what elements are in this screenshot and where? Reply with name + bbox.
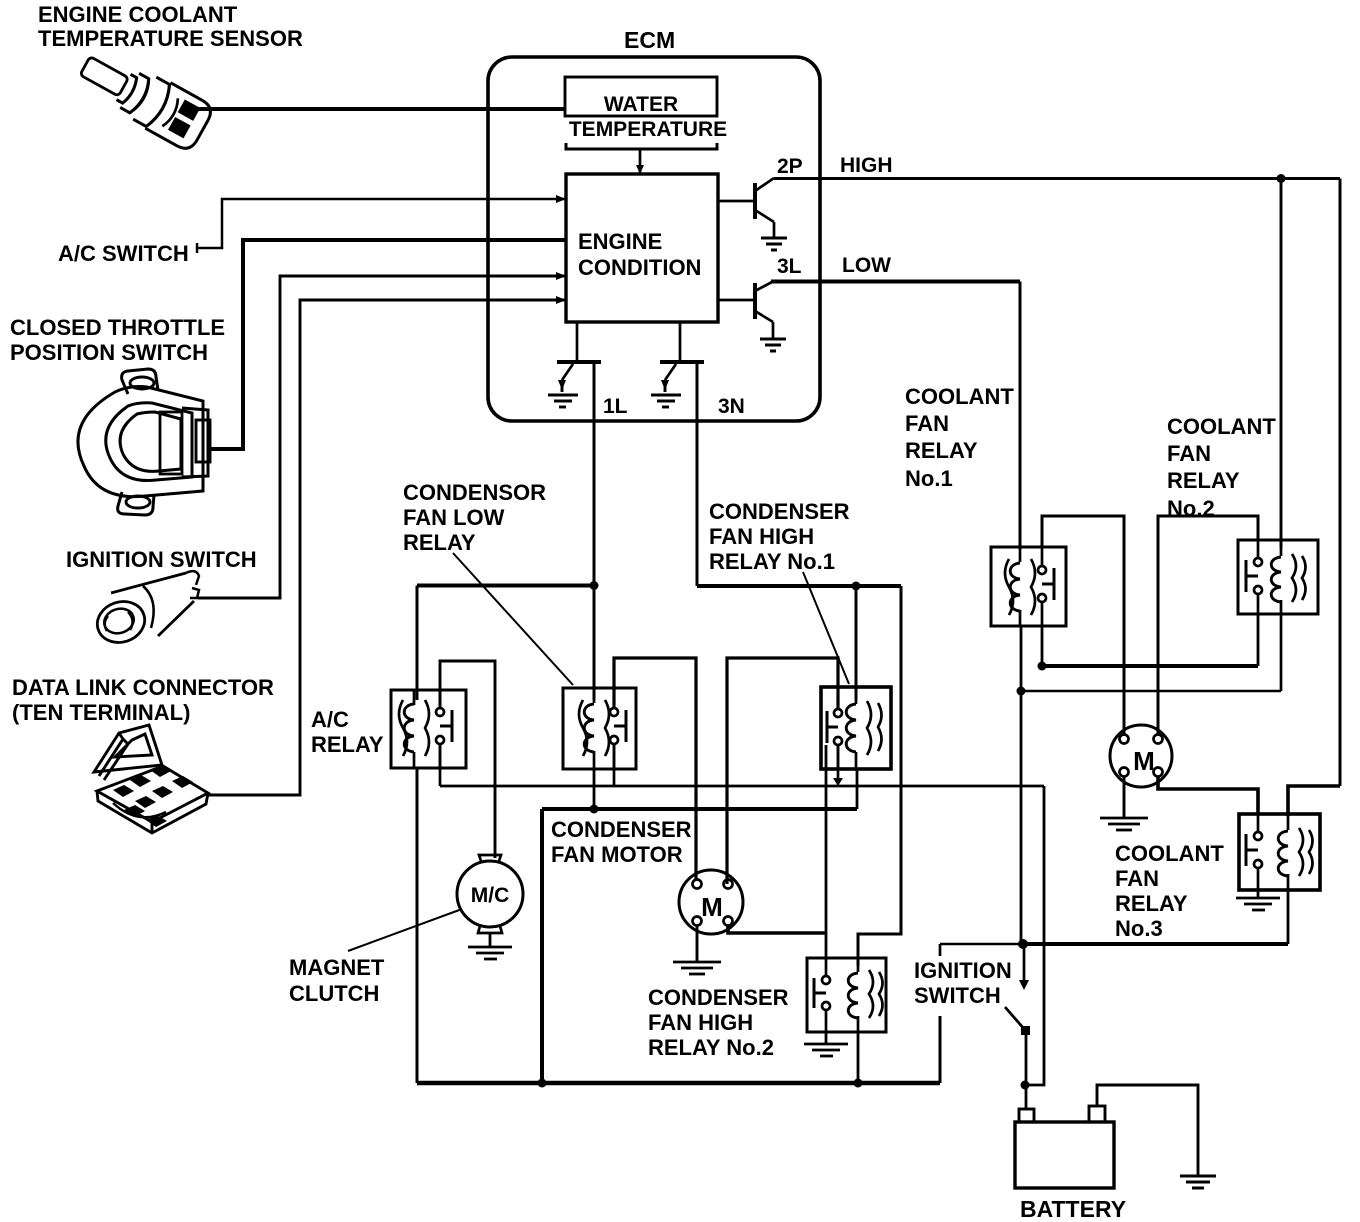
- node 1L junction: [590, 581, 599, 590]
- svg-text:No.1: No.1: [905, 466, 953, 491]
- ground coolant relay3 switch: [1236, 890, 1280, 910]
- relay A/C switch: [436, 690, 452, 768]
- wire coolant relay2 switch bottom: [1257, 614, 1260, 666]
- svg-text:CLOSED THROTTLE: CLOSED THROTTLE: [10, 315, 225, 340]
- ground 3N: [661, 380, 669, 390]
- relay condensor fan low coil: [579, 688, 609, 769]
- supply rail y809: [542, 807, 857, 811]
- node 1L coil bottom: [590, 805, 599, 814]
- wire 3N horizontal: [697, 584, 901, 588]
- svg-text:TEMPERATURE: TEMPERATURE: [569, 118, 727, 141]
- wire WT to engine condition: [639, 149, 642, 174]
- svg-text:LOW: LOW: [842, 254, 891, 277]
- svg-text:ENGINE COOLANT: ENGINE COOLANT: [38, 2, 238, 27]
- relay coolant fan no3 coil: [1278, 814, 1312, 890]
- node relay1 switch bottom: [1038, 662, 1047, 671]
- svg-text:A/C SWITCH: A/C SWITCH: [58, 241, 189, 266]
- svg-text:FAN: FAN: [1115, 866, 1159, 891]
- wire condenser motor port4 to relays high: [728, 926, 826, 933]
- node ignition rail: [1018, 939, 1028, 949]
- svg-text:TEMPERATURE SENSOR: TEMPERATURE SENSOR: [38, 26, 303, 51]
- wire A/C switch bottom: [439, 744, 442, 786]
- relay condenser fan high no1 switch: [827, 687, 842, 769]
- ignition switch fixed contact: [1023, 944, 1026, 982]
- wire 3N down: [696, 362, 699, 586]
- ignition rail y944: [940, 943, 1023, 946]
- wire battery negative: [1097, 1085, 1198, 1175]
- wire HIGH right edge down: [1339, 179, 1342, 787]
- ground 1L: [558, 380, 566, 390]
- ignition switch hook: [939, 944, 942, 956]
- condenser fan motor: [679, 870, 743, 934]
- ground condenser motor: [673, 962, 721, 974]
- wire coolant relay1 coil bottom down: [1020, 626, 1023, 944]
- wire condenser motor port2 to condenser high relay1 switch: [727, 658, 838, 884]
- relay coolant fan no1 switch: [1038, 547, 1054, 626]
- engine coolant temperature sensor icon: [73, 43, 215, 153]
- wire HIGH: [774, 177, 1340, 180]
- ground 2P: [761, 238, 787, 250]
- relay A/C coil: [399, 690, 429, 768]
- svg-text:FAN: FAN: [1167, 441, 1211, 466]
- arrow input4: [556, 296, 566, 304]
- svg-text:FAN: FAN: [905, 411, 949, 436]
- battery feed rail y786: [440, 785, 1044, 788]
- svg-text:CONDENSER: CONDENSER: [709, 499, 850, 524]
- wire to A/C relay coil top: [416, 586, 419, 701]
- svg-text:HIGH: HIGH: [840, 154, 893, 177]
- node 3N/cond relay1 coil: [852, 582, 861, 591]
- engine condition box: [566, 174, 718, 322]
- wire condensor low switch bottom: [613, 744, 616, 786]
- wire LOW: [771, 280, 1020, 284]
- wire coolant motor port3 to ground: [1123, 777, 1126, 817]
- wire condenser motor port3 to ground: [696, 926, 699, 961]
- wire A/C switch to ECM: [197, 199, 566, 248]
- ground battery: [1180, 1176, 1216, 1188]
- svg-text:2P: 2P: [777, 155, 803, 178]
- node HIGH/relay2coil: [1277, 174, 1286, 183]
- svg-text:3N: 3N: [718, 395, 745, 418]
- water temperature box: [565, 77, 717, 116]
- svg-text:FAN MOTOR: FAN MOTOR: [551, 842, 683, 867]
- svg-text:IGNITION SWITCH: IGNITION SWITCH: [66, 547, 257, 572]
- svg-text:RELAY: RELAY: [905, 438, 978, 463]
- svg-text:No.3: No.3: [1115, 916, 1163, 941]
- wire condenser high relay2 coil bottom: [857, 1032, 860, 1083]
- wire ignition switch to ECM: [198, 276, 566, 598]
- relay condensor fan low switch: [610, 688, 626, 769]
- svg-text:FAN LOW: FAN LOW: [403, 505, 505, 530]
- svg-text:COOLANT: COOLANT: [1115, 841, 1224, 866]
- relay condenser fan high no2 switch: [814, 958, 830, 1032]
- leader condenser fan high relay1: [803, 572, 849, 684]
- svg-text:WATER: WATER: [604, 93, 678, 116]
- leader condensor fan low relay: [453, 553, 573, 685]
- ground magnet clutch: [468, 933, 512, 959]
- arrow input1: [556, 195, 566, 203]
- arrow input3: [556, 272, 566, 280]
- svg-text:RELAY: RELAY: [403, 530, 476, 555]
- arrow junction high1 switch: [833, 778, 843, 786]
- relay condensor fan low: box: [563, 688, 636, 769]
- wire bottom rail right up (ignition pole): [939, 1016, 942, 1083]
- svg-text:BATTERY: BATTERY: [1020, 1196, 1126, 1222]
- svg-text:(TEN TERMINAL): (TEN TERMINAL): [12, 700, 190, 725]
- svg-text:POSITION SWITCH: POSITION SWITCH: [10, 340, 208, 365]
- wire condenser high relay1 coil bottom: [856, 769, 859, 809]
- wire closed throttle to ECM: [207, 240, 566, 449]
- svg-text:RELAY: RELAY: [1115, 891, 1188, 916]
- svg-text:CONDENSOR: CONDENSOR: [403, 480, 546, 505]
- svg-text:RELAY: RELAY: [311, 732, 384, 757]
- wire sensor to ECM: [195, 107, 565, 111]
- wire condensor low coil bottom: [593, 769, 596, 809]
- svg-text:CONDENSER: CONDENSER: [551, 817, 692, 842]
- transistor 3L: [718, 282, 773, 338]
- coolant relays: switch rail y666: [1042, 664, 1258, 668]
- staple coolant relay2 switch to motor port2: [1158, 516, 1258, 735]
- wire right edge to relay3 coil: [1288, 786, 1340, 816]
- svg-text:FAN HIGH: FAN HIGH: [709, 524, 814, 549]
- relay coolant fan no3: box: [1239, 814, 1320, 890]
- svg-text:3L: 3L: [777, 255, 802, 278]
- node relay2 coil bottom rail: [854, 1079, 863, 1088]
- node battery top: [1021, 1081, 1030, 1090]
- svg-text:1L: 1L: [603, 395, 628, 418]
- wire 3N right down: [858, 586, 901, 966]
- transistor 3N: [660, 322, 704, 380]
- coolant relays: coil rail y691: [1021, 690, 1281, 693]
- water temp underline: [566, 143, 717, 149]
- wire relay3 coil bottom: [1287, 890, 1290, 944]
- A/C relay coil bottom to bottom rail: [416, 768, 419, 1083]
- coolant fan motor: [1110, 725, 1172, 787]
- wire condenser high relay1 switch bottom down: [825, 745, 828, 958]
- wire HIGH to coolant relay2 coil: [1280, 179, 1283, 549]
- relay A/C: box: [391, 690, 466, 768]
- magnet clutch M/C: [457, 861, 523, 927]
- ground 3L: [760, 339, 786, 351]
- ignition switch blade: [1005, 1007, 1025, 1030]
- leader magnet clutch: [348, 909, 462, 951]
- svg-text:FAN HIGH: FAN HIGH: [648, 1010, 753, 1035]
- ground condenser high relay2 switch: [804, 1032, 848, 1056]
- relay coolant fan no2: box: [1238, 540, 1318, 614]
- svg-text:ENGINE: ENGINE: [578, 229, 662, 254]
- svg-text:COOLANT: COOLANT: [1167, 414, 1276, 439]
- relay condenser fan high no1 coil: [846, 687, 881, 769]
- wire battery positive: [1025, 1085, 1028, 1110]
- relay coolant fan no2 coil: [1271, 540, 1305, 614]
- wire data link to ECM: [208, 300, 566, 795]
- svg-text:DATA LINK CONNECTOR: DATA LINK CONNECTOR: [12, 675, 274, 700]
- svg-text:COOLANT: COOLANT: [905, 384, 1014, 409]
- wire left inner edge: [540, 809, 544, 1083]
- wire 1L left rail: [417, 584, 594, 588]
- wire A/C relay switch top to magnet clutch: [440, 661, 495, 858]
- battery: [1015, 1122, 1114, 1188]
- wire 1L down: [593, 362, 596, 588]
- wire condensor low coil top: [593, 586, 596, 701]
- wire LOW down to coolant relay1 coil: [1019, 282, 1022, 551]
- svg-text:CONDENSER: CONDENSER: [648, 985, 789, 1010]
- relay coolant fan no2 switch: [1246, 540, 1262, 614]
- closed throttle position switch icon: [78, 369, 210, 515]
- svg-text:MAGNET: MAGNET: [289, 955, 385, 980]
- ground coolant motor: [1100, 818, 1148, 830]
- wire coolant relay1 switch bottom: [1041, 626, 1044, 666]
- svg-text:M: M: [701, 892, 723, 922]
- node coil rail: [1017, 687, 1026, 696]
- transistor 2P: [718, 178, 774, 237]
- bottom rail: [417, 1081, 940, 1086]
- svg-text:RELAY No.1: RELAY No.1: [709, 549, 835, 574]
- ECM box: [488, 57, 820, 421]
- svg-text:M: M: [1133, 746, 1155, 776]
- wire coolant relay2 coil bottom: [1280, 614, 1283, 691]
- relay coolant fan no1: box: [991, 547, 1066, 626]
- transistor 1L: [557, 322, 601, 380]
- ignition switch icon: [92, 571, 199, 648]
- svg-text:M/C: M/C: [471, 884, 510, 907]
- svg-text:RELAY No.2: RELAY No.2: [648, 1035, 774, 1060]
- node inner edge bottom: [538, 1079, 547, 1088]
- relay condenser fan high no2: box: [807, 958, 886, 1032]
- svg-text:CONDITION: CONDITION: [578, 255, 701, 280]
- wire ignition blade to battery: [1025, 1031, 1028, 1085]
- wire condenser high1 switch bottom stub: [837, 745, 840, 780]
- wire coolant motor port4 to relay3 switch: [1158, 777, 1258, 814]
- relay coolant fan no3 switch: [1246, 814, 1262, 890]
- svg-text:SWITCH: SWITCH: [914, 983, 1001, 1008]
- svg-text:CLUTCH: CLUTCH: [289, 981, 379, 1006]
- relay condenser fan high no1: box: [821, 687, 891, 769]
- svg-text:RELAY: RELAY: [1167, 468, 1240, 493]
- data link connector icon: [94, 725, 208, 833]
- relay coolant fan no1 coil: [1005, 547, 1035, 626]
- svg-text:ECM: ECM: [624, 27, 675, 53]
- relay condenser fan high no2 coil: [848, 958, 882, 1032]
- svg-text:A/C: A/C: [311, 707, 349, 732]
- wire condensor low switch top to condenser motor port1: [614, 658, 696, 880]
- wire to condenser high relay1 coil top: [855, 586, 858, 700]
- svg-text:IGNITION: IGNITION: [914, 958, 1012, 983]
- staple coolant relay1 switch to motor port1: [1042, 516, 1124, 735]
- wire battery feed down: [1025, 786, 1044, 1085]
